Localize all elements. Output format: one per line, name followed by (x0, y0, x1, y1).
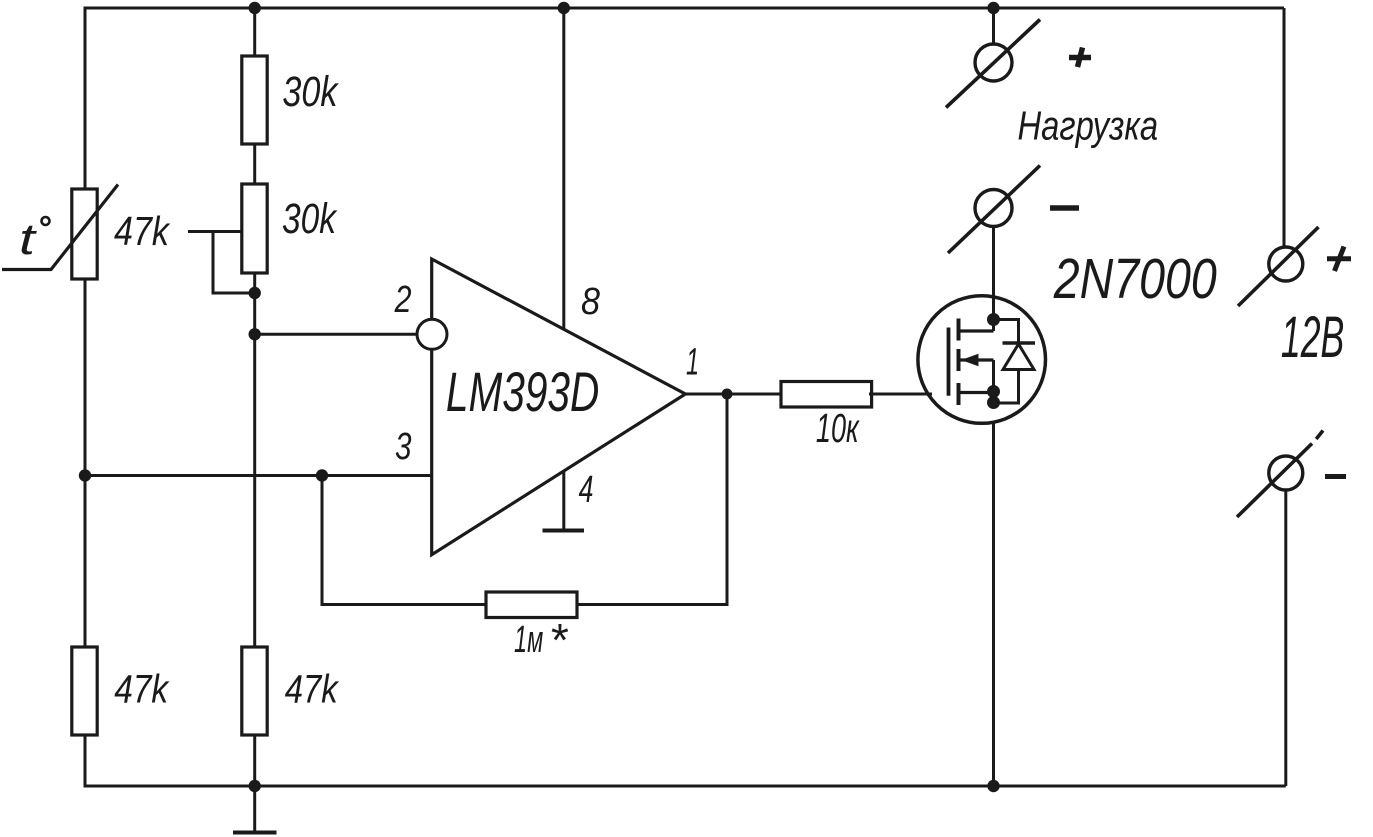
plus sign load (1069, 48, 1091, 68)
resistor R 1M feedback (486, 592, 577, 618)
wire top bus (85, 7, 1284, 10)
thermistor RK1 body (72, 189, 97, 279)
connector X4 supply minus (1237, 431, 1323, 518)
wire output row (685, 393, 930, 396)
svg-text:10к: 10к (816, 407, 860, 452)
node top pin8 (558, 2, 570, 14)
wire source vertical (992, 392, 995, 786)
svg-text:2N7000: 2N7000 (1053, 248, 1217, 312)
wire ground stem bottom (253, 786, 256, 832)
label t deg (19, 214, 50, 263)
resistor R 10k (781, 382, 872, 408)
wire right rail lower (1284, 490, 1287, 787)
plus sign supply (1327, 247, 1351, 272)
svg-text:LM393D: LM393D (446, 362, 599, 424)
node source upper (987, 385, 1000, 398)
op-amp U1 LM393D (417, 259, 685, 555)
node wiper junction (249, 287, 261, 299)
wire pin2 row (255, 333, 418, 336)
svg-text:12В: 12В (1281, 305, 1344, 370)
node top middle rail (249, 2, 261, 14)
svg-text:Нагрузка: Нагрузка (1018, 102, 1159, 148)
svg-text:t: t (19, 214, 37, 263)
svg-text:47k: 47k (285, 666, 340, 711)
svg-text:30k: 30k (282, 68, 339, 116)
wire drain vertical (992, 227, 995, 332)
body diode of Q1 (994, 320, 1036, 404)
minus sign supply (1325, 474, 1346, 479)
connector X3 supply plus (1238, 227, 1319, 306)
ground pin4 (543, 529, 585, 533)
wire left rail (84, 7, 87, 788)
wire right rail upper (1283, 8, 1286, 248)
ground bottom (233, 831, 277, 835)
svg-text:*: * (549, 614, 569, 666)
thermistor diagonal (2, 185, 118, 270)
node bottom ground (249, 780, 261, 792)
wire load connector stem (992, 8, 995, 45)
wire pot wiper to bottom (213, 232, 255, 294)
node pin3 left rail (79, 469, 91, 481)
svg-text:1м: 1м (514, 617, 543, 660)
node output (722, 389, 733, 400)
label 1M (514, 614, 569, 666)
minus sign load (1050, 205, 1079, 211)
connector X1 load plus (946, 20, 1040, 108)
svg-text:8: 8 (581, 279, 600, 322)
node top load (987, 2, 999, 14)
svg-text:3: 3 (395, 426, 412, 468)
node source lower (987, 396, 1000, 409)
svg-text:2: 2 (394, 279, 412, 321)
resistor R 47k middle (242, 647, 267, 735)
connector X2 load minus (948, 166, 1040, 254)
wire pin8 vertical (562, 8, 565, 330)
wire pot wiper tap (188, 230, 242, 233)
wire middle rail (253, 8, 256, 786)
node drain (987, 313, 1000, 326)
resistor R 30k upper (242, 56, 267, 144)
wire bottom bus (84, 785, 1286, 788)
resistor R 47k left (72, 647, 97, 735)
svg-text:30k: 30k (282, 195, 337, 243)
node pin2 junction (249, 328, 261, 340)
node pin3 feedback (316, 469, 328, 481)
wire pin4 vertical (562, 471, 565, 531)
svg-text:47k: 47k (114, 208, 171, 254)
svg-text:4: 4 (579, 467, 594, 510)
svg-text:1: 1 (686, 340, 699, 383)
wire pin3 row (85, 474, 432, 477)
transistor Q1 2N7000 (869, 296, 1046, 424)
node bottom source (987, 780, 999, 792)
svg-text:47k: 47k (114, 667, 169, 711)
trimmer R 30k lower (242, 184, 267, 273)
wire feedback loop (322, 394, 727, 605)
